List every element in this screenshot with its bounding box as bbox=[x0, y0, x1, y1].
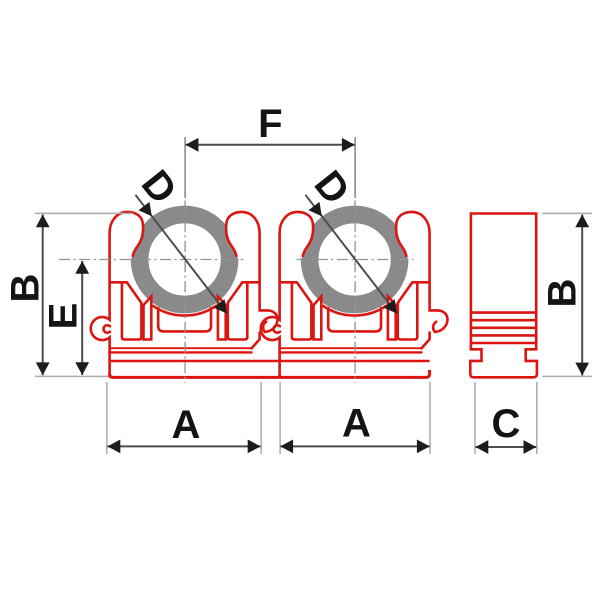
svg-text:E: E bbox=[42, 303, 86, 330]
svg-text:D: D bbox=[133, 162, 185, 212]
svg-text:C: C bbox=[492, 402, 521, 446]
svg-text:B: B bbox=[540, 279, 584, 308]
svg-text:F: F bbox=[258, 102, 282, 146]
svg-text:B: B bbox=[4, 274, 48, 303]
svg-text:A: A bbox=[172, 403, 201, 447]
svg-text:A: A bbox=[342, 402, 371, 446]
